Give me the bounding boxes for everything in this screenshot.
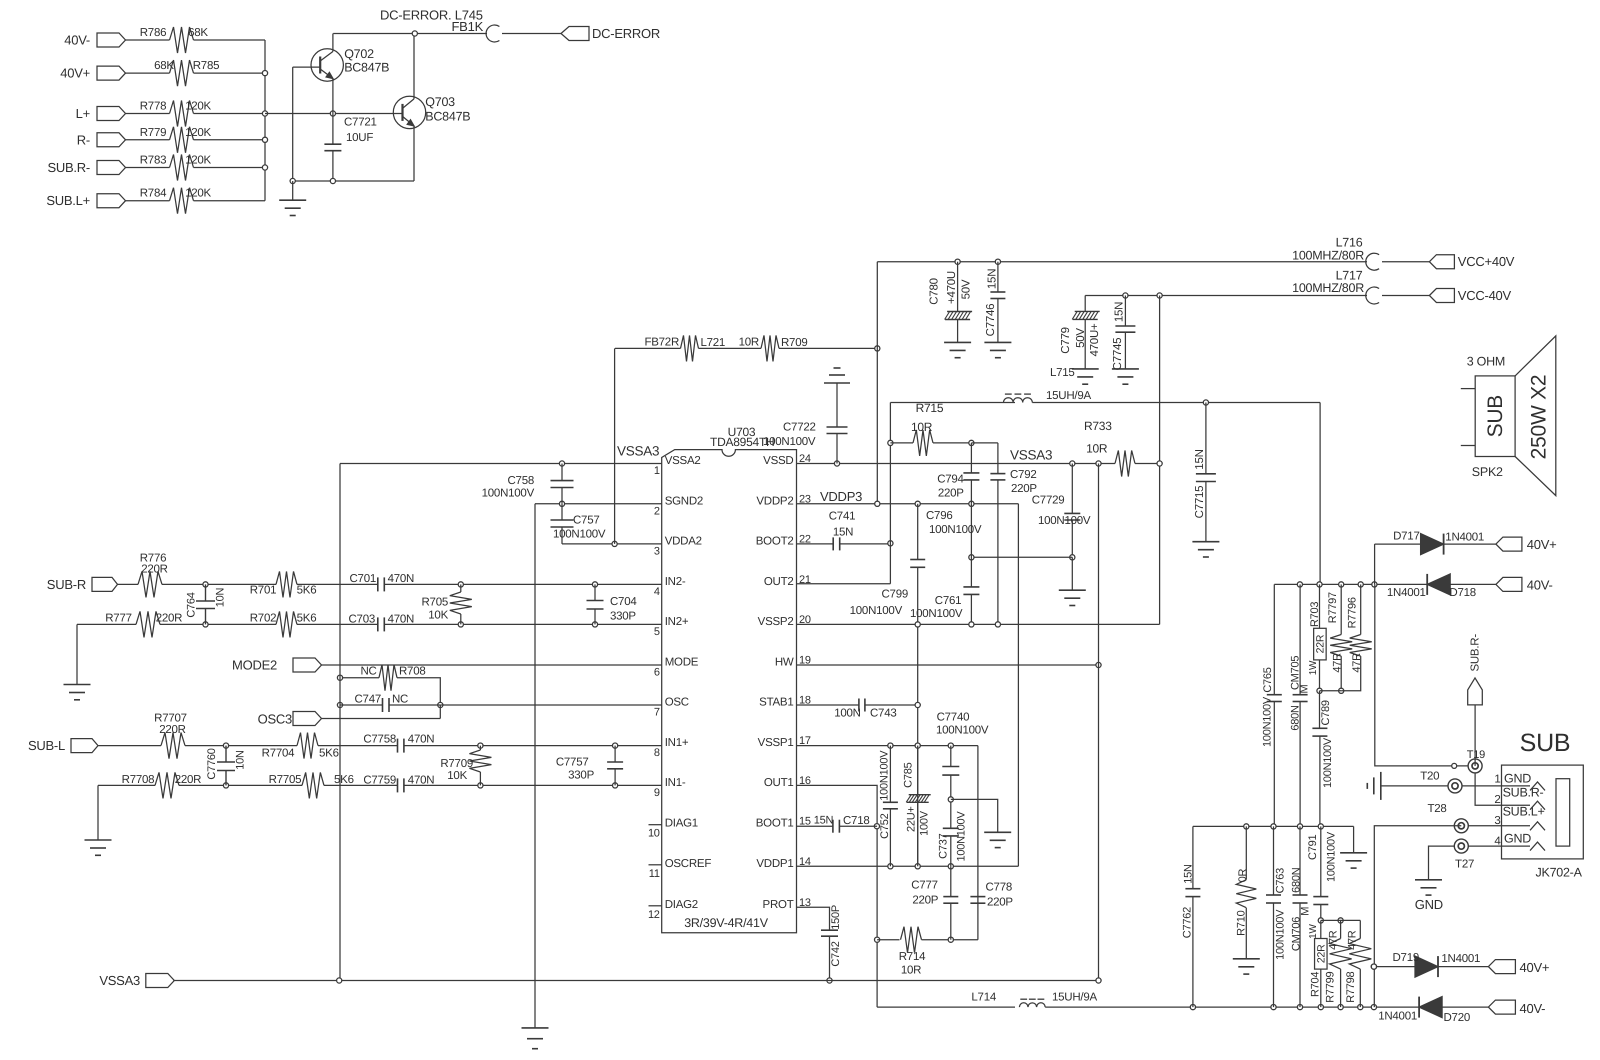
label C7722 value <box>763 436 816 448</box>
label D720 <box>1444 1012 1471 1024</box>
junction OSC right leg <box>438 702 443 707</box>
wire CM706 top lead <box>1299 826 1301 895</box>
wire bus to C747 <box>340 704 383 706</box>
wire D719 to flag <box>1438 966 1488 968</box>
ground below C780 <box>944 342 971 357</box>
connector flag OSC3 <box>293 712 322 726</box>
wire C758 top lead <box>561 464 563 481</box>
label VCC+40V <box>1458 254 1515 269</box>
label C7762 <box>1181 907 1193 938</box>
svg-text:R714: R714 <box>899 951 926 963</box>
capacitor C763 <box>1266 895 1281 903</box>
op-amp U1: IC U703 TDA8954TH body <box>662 450 797 933</box>
svg-text:120K: 120K <box>185 101 211 113</box>
svg-text:D717: D717 <box>1393 531 1420 543</box>
wire T27 to pin4 <box>1468 845 1530 847</box>
ground below C7745 <box>1112 369 1139 384</box>
net label VSSA3 top <box>617 444 659 459</box>
label R704 <box>1309 972 1321 997</box>
svg-text:R703: R703 <box>1309 602 1321 627</box>
label R7796 <box>1347 597 1359 628</box>
svg-text:VSSA3: VSSA3 <box>99 973 140 988</box>
resistor R715 <box>913 430 933 456</box>
svg-text:50V: 50V <box>1075 328 1087 348</box>
pin number 12 <box>648 909 660 921</box>
label C7759 value <box>408 774 435 786</box>
label C785 value <box>905 806 917 832</box>
resistor R783 designator/value left <box>140 155 167 167</box>
wire rail down to R703 column <box>1319 403 1321 585</box>
wire C743 to column <box>865 704 918 706</box>
svg-text:220P: 220P <box>1011 483 1037 495</box>
label D720 value <box>1378 1010 1417 1022</box>
label DC-ERROR. L745 <box>380 8 483 23</box>
svg-text:C718: C718 <box>843 815 870 827</box>
wire C7746 bottom lead <box>997 299 999 343</box>
svg-text:R7798: R7798 <box>1345 971 1357 1002</box>
label C763 <box>1274 868 1286 893</box>
junction tap at C761 column <box>969 555 974 560</box>
wire C779 bottom lead <box>1084 319 1086 369</box>
svg-text:1N4001: 1N4001 <box>1445 532 1484 544</box>
wire PROT right and down <box>797 907 830 930</box>
svg-text:R7799: R7799 <box>1325 971 1337 1002</box>
wire R7705 to C7759 <box>324 784 398 786</box>
label C743 <box>870 707 897 719</box>
svg-text:DC-ERROR: DC-ERROR <box>592 26 660 41</box>
label C7758 value <box>408 733 435 745</box>
svg-text:8: 8 <box>654 747 660 759</box>
wire C777 top lead <box>950 866 952 896</box>
wire C7729 bottom lead <box>1071 520 1073 557</box>
svg-text:40V-: 40V- <box>64 33 90 48</box>
junction C7740 top <box>948 743 953 748</box>
wire SUB.R- to resistor <box>126 167 170 169</box>
connector flag SUB.L+ <box>97 194 126 208</box>
wire summing bus vertical <box>264 40 266 201</box>
wire speaker stub top <box>1461 388 1475 390</box>
label C796 <box>926 510 953 522</box>
capacitor C737 <box>943 828 959 836</box>
pin name BOOT2 <box>756 535 794 547</box>
pin number 18 <box>799 695 811 707</box>
capacitor C778 <box>970 897 985 904</box>
label R7798 <box>1345 971 1357 1002</box>
svg-text:C747: C747 <box>355 694 382 706</box>
wire R7797 bottom lead <box>1340 656 1342 691</box>
wire -40V drop to R733 row <box>1159 296 1161 625</box>
svg-text:VSSA3: VSSA3 <box>617 444 659 459</box>
resistor R784 <box>170 188 194 214</box>
label R776 <box>140 553 167 565</box>
ferrite FB72R L721 <box>681 335 699 361</box>
resistor R714 <box>901 927 922 953</box>
svg-text:VSSA3: VSSA3 <box>1010 448 1052 463</box>
junction R714 left <box>875 937 880 942</box>
wire R715 node to C792 <box>971 442 998 444</box>
label SUB speaker <box>1484 395 1507 437</box>
wire D717 row <box>1374 544 1376 584</box>
diode D719 1N4001 <box>1415 956 1438 977</box>
label C764 <box>186 592 198 617</box>
junction BOOT1 node <box>874 824 879 829</box>
svg-text:120K: 120K <box>185 127 211 139</box>
svg-text:C701: C701 <box>350 573 377 585</box>
capacitor C701 <box>378 577 385 591</box>
wire VSSA3 bottom rail <box>173 980 1098 982</box>
svg-text:R785: R785 <box>193 60 220 72</box>
ferrite bead L717 <box>1366 287 1379 304</box>
wire C7729 top lead <box>1071 464 1073 514</box>
label C765 <box>1262 667 1274 692</box>
wire VSSA3 bus x340 <box>339 464 341 981</box>
pin number 7 <box>654 707 660 719</box>
svg-text:3 OHM: 3 OHM <box>1467 354 1505 368</box>
wire C703 to pin5 <box>384 623 661 625</box>
junction HW column on VSSA3 rail <box>1096 978 1101 983</box>
label SPK2 <box>1472 465 1503 479</box>
net label VSSA3 mid <box>1010 448 1052 463</box>
junction R715 right <box>969 440 974 445</box>
wire OUT2 net row right <box>1274 583 1427 585</box>
wire R708 to right leg <box>397 678 440 705</box>
label C758 <box>508 475 535 487</box>
wire BOOT2 column x890 <box>889 403 891 584</box>
svg-text:5K6: 5K6 <box>297 585 317 597</box>
inductor L715 <box>1004 394 1033 402</box>
svg-text:SUB.L+: SUB.L+ <box>1503 805 1545 819</box>
wire D718 to flag <box>1450 583 1496 585</box>
wire pin2 SGND2 row <box>535 503 662 505</box>
capacitor C7759 <box>398 778 404 792</box>
label R701 <box>250 585 277 597</box>
wire Q703 emitter down <box>413 126 415 181</box>
label C704 value <box>610 611 636 623</box>
label C764 value <box>215 587 227 607</box>
svg-text:12: 12 <box>648 909 660 921</box>
wire R7707 to C7760 node <box>185 745 297 747</box>
svg-text:FB1K: FB1K <box>451 19 483 34</box>
wire FB1K to flag <box>502 33 561 35</box>
label L717 <box>1336 269 1363 283</box>
label CM706 <box>1291 917 1303 951</box>
resistor R701 <box>276 571 297 597</box>
pin number JK 4 <box>1494 835 1501 847</box>
svg-text:1: 1 <box>654 465 660 477</box>
label R715 <box>916 401 944 415</box>
junction R7797 top <box>1339 582 1344 587</box>
svg-text:15UH/9A: 15UH/9A <box>1052 992 1097 1004</box>
resistor R778 designator/value right <box>185 101 211 113</box>
label U703 <box>728 425 756 439</box>
wire VDDP2 to VDDP1 column <box>1017 504 1019 867</box>
wire resistor R786 to bus <box>194 39 266 41</box>
resistor R709 <box>761 335 779 361</box>
wire pin1 VSSA2 row <box>340 463 662 465</box>
label JK702-A <box>1535 866 1582 880</box>
svg-text:BC847B: BC847B <box>425 109 470 123</box>
svg-text:100N100V: 100N100V <box>955 811 967 862</box>
junction CM706 bottom rail <box>1297 1005 1302 1010</box>
wire VSSD row <box>797 463 1116 465</box>
label R7705 value <box>334 774 354 786</box>
label C792 <box>1010 469 1037 481</box>
pin number JK 3 <box>1494 815 1500 827</box>
terminal T19 <box>1468 759 1482 773</box>
wire SUB.L+ to resistor <box>126 200 170 202</box>
resistor R702 <box>276 611 297 637</box>
label L721 <box>701 337 726 349</box>
wire R7709 top lead <box>479 746 481 750</box>
svg-text:R784: R784 <box>140 188 167 200</box>
label C7740 <box>937 712 970 724</box>
net label MODE2 <box>232 658 277 673</box>
wire C761 bottom lead <box>970 594 972 624</box>
label C7729 value <box>1038 515 1091 527</box>
label 250W X2 <box>1528 375 1551 460</box>
svg-text:C796: C796 <box>926 510 953 522</box>
label C7746 value <box>986 269 998 289</box>
pin number JK 1 <box>1494 774 1500 786</box>
wire lower group top row <box>1321 919 1361 921</box>
svg-text:C777: C777 <box>911 879 938 891</box>
label C779 <box>1060 327 1072 354</box>
pin name VSSA2 <box>665 455 701 467</box>
label D718 <box>1449 587 1476 599</box>
capacitor C758 <box>551 481 574 488</box>
label L717 value <box>1292 281 1364 295</box>
pin number 3 <box>654 545 660 557</box>
pin 12 NC overbar <box>649 905 662 907</box>
wire C7762 bottom lead <box>1192 897 1194 1008</box>
capacitor C703 <box>378 617 385 631</box>
pin 11 NC overbar <box>649 864 662 866</box>
svg-text:15N: 15N <box>986 269 998 289</box>
connector flag SUB.R- <box>97 161 126 175</box>
label L714 value <box>1052 992 1097 1004</box>
pin number 5 <box>654 626 660 638</box>
junction diode column top <box>1372 582 1377 587</box>
junction OUT1 column bottom rail <box>1371 1005 1376 1010</box>
ground below R7708 <box>85 840 112 855</box>
net label 40V+ <box>60 66 90 81</box>
junction C796 top <box>915 501 920 506</box>
capacitor C7758 <box>398 739 404 753</box>
label C758 value <box>482 488 535 500</box>
label T19 <box>1467 749 1485 761</box>
wire HW row <box>797 664 1099 666</box>
wire C7745 top lead <box>1124 296 1126 327</box>
svg-text:330P: 330P <box>610 611 636 623</box>
junction R704 top <box>1318 918 1323 923</box>
wire C791 top lead <box>1320 826 1322 896</box>
wire VSSP2 row <box>797 623 1160 625</box>
connector flag 40V- <box>97 33 126 47</box>
wire bus to Q703 base <box>265 113 402 115</box>
label R7799 <box>1325 971 1337 1002</box>
svg-text:15N: 15N <box>1114 302 1126 322</box>
svg-text:3: 3 <box>1494 815 1500 827</box>
wire R7798 bottom lead <box>1359 969 1361 1007</box>
svg-text:BC847B: BC847B <box>344 60 389 74</box>
svg-text:C792: C792 <box>1010 469 1037 481</box>
junction C777 bottom <box>948 937 953 942</box>
label R714 value <box>901 964 921 976</box>
svg-text:10R: 10R <box>911 420 933 434</box>
svg-text:47R: 47R <box>1351 653 1363 673</box>
wire R7798 top lead <box>1359 920 1361 938</box>
svg-text:C799: C799 <box>882 589 909 601</box>
svg-text:220P: 220P <box>938 488 964 500</box>
diode D720 1N4001 <box>1419 997 1442 1018</box>
wire C763 top lead <box>1273 826 1275 895</box>
label R7704 value <box>319 747 339 759</box>
capacitor C764 <box>196 584 215 624</box>
resistor R705 <box>450 592 472 614</box>
label C747 <box>355 694 382 706</box>
label C737 <box>937 833 949 858</box>
pin name DIAG2 <box>665 899 698 911</box>
svg-text:C764: C764 <box>186 592 198 617</box>
svg-text:GND: GND <box>1415 897 1443 912</box>
wire R703 top lead <box>1319 584 1321 628</box>
capacitor C7722 <box>827 427 848 434</box>
svg-text:10R: 10R <box>739 337 759 349</box>
pin name JK GND1 <box>1504 772 1531 786</box>
junction C764 bottom <box>203 622 208 627</box>
capacitor C779 polarized plate <box>1072 311 1100 319</box>
label C7729 <box>1032 494 1065 506</box>
label R776 value <box>141 564 168 576</box>
junction C796 on VSSP2 <box>915 622 920 627</box>
wire R715 to C794 top <box>933 442 971 444</box>
label C747 NC <box>392 694 408 706</box>
net label OSC3 <box>258 712 292 727</box>
label R733 <box>1084 419 1112 433</box>
svg-text:7: 7 <box>654 707 660 719</box>
label C718 <box>843 815 870 827</box>
capacitor C757 <box>551 520 574 527</box>
terminal T20 <box>1448 779 1462 793</box>
resistor R703 22R <box>1314 628 1327 660</box>
junction C752 bottom <box>888 864 893 869</box>
resistor R710 0R <box>1236 880 1256 908</box>
svg-text:C7721: C7721 <box>344 117 377 129</box>
svg-text:DIAG2: DIAG2 <box>665 899 698 911</box>
label C785 voltage <box>918 810 930 836</box>
label C737 value <box>955 811 967 862</box>
svg-text:250W X2: 250W X2 <box>1528 375 1551 460</box>
wire C765 column top <box>1273 584 1275 694</box>
wire resistor R779 to bus <box>194 139 266 141</box>
junction R7709 top <box>478 743 483 748</box>
resistor R777 <box>136 611 160 637</box>
label CM706 value <box>1291 867 1303 893</box>
capacitor C785 polarized plate <box>906 795 931 803</box>
svg-text:MODE: MODE <box>665 657 699 669</box>
svg-text:R708: R708 <box>399 665 426 677</box>
svg-text:R715: R715 <box>916 401 944 415</box>
ground below C779 <box>1072 369 1099 384</box>
wire OUT1 net column <box>1374 826 1461 1007</box>
junction C7760 bottom <box>223 783 228 788</box>
capacitor C777 <box>943 897 958 904</box>
wire mid junction row <box>1193 825 1354 827</box>
wire SGND2 drop x535 <box>534 504 536 1028</box>
wire left to R7708 <box>98 784 155 786</box>
wire C7740 top lead <box>950 746 952 767</box>
svg-text:10N: 10N <box>215 587 227 607</box>
junction -40V drop <box>1157 293 1162 298</box>
pin contact chevron 4 <box>1530 842 1545 851</box>
junction C7745 top <box>1123 293 1128 298</box>
label C780 plus value <box>946 271 958 304</box>
wire D717 to flag <box>1444 543 1496 545</box>
label C703 <box>349 613 376 625</box>
resistor R783 designator/value right <box>185 155 211 167</box>
svg-text:120K: 120K <box>185 155 211 167</box>
label CM706 M <box>1300 907 1312 916</box>
label VCC-40V <box>1458 288 1512 303</box>
svg-text:SUB-L: SUB-L <box>28 738 65 753</box>
label C785 <box>903 762 915 787</box>
wire Q702 collector up <box>332 34 334 52</box>
svg-text:R7707: R7707 <box>154 712 187 724</box>
svg-text:15N: 15N <box>833 527 853 539</box>
label C777 value <box>912 894 938 906</box>
svg-text:C752: C752 <box>879 813 891 838</box>
capacitor C743 <box>859 699 865 712</box>
resistor R7798 47R <box>1349 939 1371 970</box>
pin number 13 <box>799 897 811 909</box>
diode D717 1N4001 <box>1421 534 1444 555</box>
svg-text:4: 4 <box>1494 835 1501 847</box>
svg-text:PROT: PROT <box>763 899 794 911</box>
svg-text:100MHZ/80R: 100MHZ/80R <box>1292 281 1364 295</box>
svg-text:R704: R704 <box>1309 972 1321 997</box>
svg-text:9: 9 <box>654 787 660 799</box>
svg-text:10R: 10R <box>1086 442 1108 456</box>
wire resistor R784 to bus <box>194 200 266 202</box>
label CM705 <box>1289 656 1301 690</box>
svg-text:220R: 220R <box>141 564 168 576</box>
wire resistor R778 to bus <box>194 113 266 115</box>
svg-text:R-: R- <box>77 132 90 147</box>
resistor R784 designator/value left <box>140 188 167 200</box>
wire CM706 bottom lead <box>1299 903 1301 1007</box>
label C7721 value <box>346 132 373 144</box>
wire left drop to ground <box>97 785 99 840</box>
wire D720 to flag <box>1442 1006 1488 1008</box>
wire Q703 collector up <box>413 34 415 99</box>
pin number 22 <box>799 533 811 545</box>
terminal T28 <box>1454 819 1468 833</box>
ferrite bead L745 FB1K <box>486 25 499 42</box>
wire C792 top lead <box>997 443 999 474</box>
svg-text:VSSP1: VSSP1 <box>758 737 794 749</box>
connector flag 40V+ bottom <box>1488 960 1515 974</box>
label C742 <box>830 941 842 966</box>
capacitor C704 <box>587 601 604 610</box>
svg-text:IN1-: IN1- <box>665 777 686 789</box>
svg-text:100N100V: 100N100V <box>1326 831 1338 882</box>
label L716 <box>1336 236 1363 250</box>
pin number 15 <box>799 816 811 828</box>
svg-text:L715: L715 <box>1050 367 1075 379</box>
pin number 24 <box>799 453 811 465</box>
wire right leg bottom <box>439 705 441 719</box>
label Q702 <box>344 47 374 61</box>
